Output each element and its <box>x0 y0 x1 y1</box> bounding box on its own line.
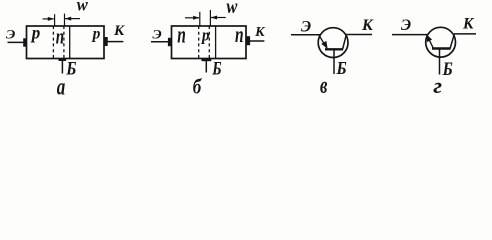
base wire (v) <box>333 50 335 75</box>
svg-text:Э: Э <box>401 17 411 34</box>
junction dashed line 2 (a) <box>63 26 65 59</box>
inner solid line (a) <box>69 26 71 59</box>
collector contact (b) <box>246 36 250 45</box>
svg-text:Э: Э <box>301 19 311 36</box>
svg-text:р: р <box>91 25 101 42</box>
collector diagonal (g) <box>450 34 454 48</box>
base wire (b) <box>205 61 207 73</box>
dimension extension tick right (b) <box>209 10 211 26</box>
base wire (a) <box>61 61 63 74</box>
svg-text:р: р <box>200 27 209 45</box>
emitter diagonal with arrow out (g) <box>427 35 433 48</box>
circle (v) <box>318 28 348 58</box>
collector wire (b) <box>250 40 265 42</box>
svg-text:w: w <box>226 0 238 18</box>
emitter wire (a) <box>8 41 25 43</box>
base wire (g) <box>439 49 441 74</box>
svg-text:К: К <box>254 25 266 40</box>
dimension line right with arrow (b) <box>211 17 226 19</box>
transistor body rectangle (b) <box>172 26 247 59</box>
dimension line right with arrow (a) <box>65 18 80 20</box>
svg-text:б: б <box>193 76 203 99</box>
svg-text:п: п <box>56 25 64 49</box>
base contact (b) <box>202 58 212 61</box>
svg-text:Б: Б <box>211 58 221 79</box>
collector contact (a) <box>104 37 108 46</box>
svg-text:Б: Б <box>65 57 76 79</box>
emitter contact (a) <box>23 38 27 46</box>
junction dashed line 1 (b) <box>198 26 200 59</box>
svg-text:К: К <box>113 23 125 39</box>
emitter wire (v) <box>291 34 320 36</box>
svg-text:р: р <box>30 22 41 43</box>
collector wire (g) <box>454 33 476 35</box>
inner solid line (b) <box>215 26 217 59</box>
emitter wire (b) <box>151 41 169 43</box>
base bar (g) <box>432 47 451 49</box>
emitter wire (g) <box>392 34 427 36</box>
svg-text:п: п <box>177 22 186 48</box>
dimension line left with arrow (b) <box>185 17 199 19</box>
svg-text:Б: Б <box>442 58 453 80</box>
svg-text:Б: Б <box>336 58 347 78</box>
junction dashed line 1 (a) <box>52 26 54 59</box>
dimension line left with arrow (a) <box>43 18 54 20</box>
dimension extension tick left (a) <box>54 14 56 26</box>
svg-text:г: г <box>433 74 442 98</box>
junction dashed line 2 (b) <box>208 26 210 59</box>
collector diagonal (v) <box>343 35 347 49</box>
collector wire (a) <box>108 41 124 43</box>
svg-text:а: а <box>57 73 65 101</box>
dimension extension tick right (a) <box>64 14 66 26</box>
emitter diagonal with arrow into base (v) <box>319 35 327 48</box>
svg-text:К: К <box>361 17 374 34</box>
svg-text:Э: Э <box>152 27 161 41</box>
collector wire (v) <box>346 34 372 36</box>
dimension extension tick left (b) <box>199 12 201 26</box>
transistor body rectangle (a) <box>27 26 105 59</box>
base contact (a) <box>59 58 67 61</box>
svg-text:w: w <box>77 0 88 15</box>
base bar (v) <box>325 48 343 50</box>
emitter contact (b) <box>168 38 172 46</box>
svg-text:в: в <box>320 71 328 99</box>
svg-text:п: п <box>235 22 244 48</box>
svg-text:Э: Э <box>6 27 15 41</box>
svg-text:К: К <box>462 16 475 33</box>
circle (g) <box>426 27 456 57</box>
